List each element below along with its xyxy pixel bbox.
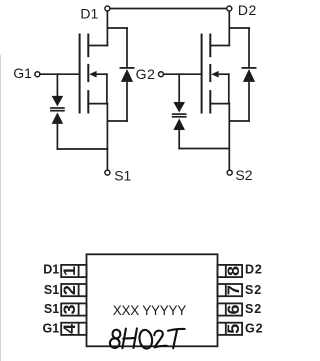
wire diode D1 bottom branch — [107, 120, 127, 122]
svg-text:S2: S2 — [235, 167, 252, 183]
wire Q2 source lead — [210, 103, 229, 105]
terminal G1 circle — [35, 72, 40, 77]
zener Z1 bottom diode triangle — [52, 112, 64, 124]
zener Z2 bottom diode triangle — [173, 119, 185, 131]
svg-text:6: 6 — [225, 305, 243, 315]
zener Z2 cathode bar lower — [173, 116, 186, 118]
package outline SOIC-8 body — [87, 254, 218, 346]
wire Q1 body lead — [96, 73, 107, 75]
transistor Q2 channel segment top — [209, 35, 211, 57]
wire diode D2 bottom branch — [229, 120, 249, 122]
terminal D1 circle — [105, 6, 110, 11]
transistor Q1 body arrow — [89, 71, 96, 78]
pin 6 lead box — [218, 303, 243, 315]
svg-text:4: 4 — [61, 323, 79, 334]
terminal G2 circle — [159, 72, 164, 77]
wire zener Z2 branch vertical — [178, 74, 180, 102]
pin 2 lead box — [61, 284, 86, 296]
zener Z2 top diode triangle — [173, 102, 185, 113]
wire zener Z2 to source — [179, 148, 229, 150]
wire top rail D1-D2 — [110, 8, 226, 10]
svg-text:D2: D2 — [245, 262, 263, 276]
wire diode D1 top branch — [107, 27, 127, 29]
wire Q1 body to source vertical — [106, 74, 108, 103]
scan edge artifact left — [0, 55, 2, 361]
diode D2 body triangle — [243, 69, 255, 82]
zener Z1 cathode bar upper — [51, 107, 64, 109]
wire zener Z1 branch vertical — [56, 74, 58, 96]
svg-text:S1: S1 — [44, 283, 59, 297]
transistor Q2 channel segment middle — [209, 65, 211, 81]
svg-text:S1: S1 — [114, 167, 131, 183]
svg-text:G1: G1 — [43, 321, 60, 335]
wire Q1 source lead — [88, 103, 107, 105]
handwritten T — [168, 329, 185, 331]
svg-text:D2: D2 — [238, 2, 257, 18]
wire Q2 body lead — [218, 73, 229, 75]
transistor Q2 channel segment bottom — [209, 91, 211, 112]
pin 4 lead box — [61, 323, 86, 335]
transistor Q2 gate bar — [201, 35, 203, 113]
diode D2 body vertical bottom — [248, 82, 250, 121]
svg-text:D1: D1 — [80, 5, 98, 21]
handwritten H — [122, 329, 126, 349]
svg-text:S1: S1 — [44, 302, 59, 316]
svg-text:G2: G2 — [245, 321, 263, 335]
wire Q2 drain lead — [210, 45, 229, 47]
svg-text:2: 2 — [61, 285, 79, 295]
pin 3 lead box — [61, 303, 86, 315]
svg-text:D1: D1 — [43, 262, 59, 276]
wire zener Z1 to source — [57, 148, 107, 150]
diode D2 body vertical top — [248, 28, 250, 67]
wire G2 gate wire — [164, 73, 202, 75]
svg-text:S2: S2 — [245, 302, 262, 316]
wire zener Z1 bottom vertical — [56, 124, 58, 149]
transistor Q1 gate bar — [79, 35, 81, 113]
pin 1 lead box — [61, 265, 86, 277]
pin 5 lead box — [218, 323, 243, 335]
terminal S1 circle — [105, 170, 110, 175]
terminal S2 circle — [227, 170, 232, 175]
pin 7 lead box — [218, 284, 243, 296]
terminal D2 circle — [227, 6, 232, 11]
svg-text:7: 7 — [225, 285, 243, 295]
handwritten 8 — [112, 329, 121, 339]
diode D1 body cathode bar — [120, 67, 133, 69]
svg-text:S2: S2 — [245, 283, 262, 297]
svg-text:G2: G2 — [136, 66, 156, 82]
diode D1 body vertical bottom — [126, 82, 128, 121]
wire Q1 source vertical — [106, 104, 108, 170]
transistor Q2 body arrow — [211, 71, 218, 78]
transistor Q1 channel segment middle — [87, 65, 89, 81]
diode D1 body vertical top — [126, 28, 128, 67]
zener Z1 cathode bar lower — [51, 110, 64, 112]
wire zener Z2 bottom vertical — [178, 130, 180, 149]
wire diode D2 top branch — [229, 27, 249, 29]
handwritten 2 — [154, 331, 167, 348]
svg-text:1: 1 — [61, 266, 79, 276]
diode D1 body triangle — [121, 69, 133, 82]
handwritten O — [138, 329, 153, 350]
wire Q2 body to source vertical — [228, 74, 230, 103]
wire Q2 source vertical — [228, 104, 230, 170]
svg-text:5: 5 — [225, 324, 243, 334]
svg-text:8: 8 — [225, 266, 243, 276]
wire D1 drain vertical — [106, 11, 108, 45]
wire G1 gate wire — [40, 73, 80, 75]
zener Z2 cathode bar upper — [173, 113, 186, 115]
svg-text:3: 3 — [61, 305, 79, 315]
transistor Q1 channel segment top — [87, 35, 89, 57]
svg-text:XXX YYYYY: XXX YYYYY — [113, 303, 187, 318]
zener Z1 top diode triangle — [52, 96, 64, 107]
wire Q1 drain lead — [88, 45, 107, 47]
handwritten marking 8HO2T — [109, 328, 184, 349]
wire D2 drain vertical — [228, 11, 230, 45]
pin 8 lead box — [218, 265, 243, 277]
diode D2 body cathode bar — [242, 67, 255, 69]
svg-text:G1: G1 — [13, 65, 32, 81]
transistor Q1 channel segment bottom — [87, 91, 89, 112]
